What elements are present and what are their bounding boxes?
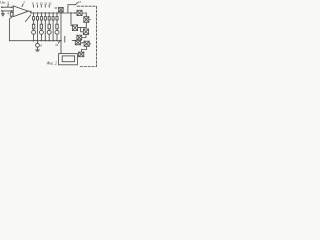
op-amp U1	[13, 6, 28, 17]
resistor b1	[32, 24, 34, 29]
resistor R1	[10, 12, 13, 16]
capacitor b1	[33, 17, 35, 20]
dashed enclosure top	[77, 5, 96, 7]
branch 2 x37.5	[36, 12, 38, 41]
gearbox B5	[77, 35, 82, 40]
branch 5 x49.2	[47, 12, 51, 41]
stub B7 right	[89, 43, 91, 45]
node dot return bottom bus	[60, 40, 61, 41]
wire B1-B2	[82, 13, 86, 17]
wire bus up-right corner	[68, 5, 76, 13]
branch 6 x53.1	[52, 12, 54, 41]
gearbox B3	[72, 25, 77, 31]
svg-text:14: 14	[78, 0, 81, 4]
node dot b1 top	[33, 12, 34, 13]
svg-text:15: 15	[54, 6, 57, 10]
wire B2-B3	[78, 22, 87, 27]
wire R1 down to feedback	[9, 16, 11, 41]
node terminal dot input 2	[1, 10, 3, 12]
branch 3 x41.4	[39, 12, 43, 41]
leaders for branch labels	[33, 5, 49, 7]
component X-box on bus	[59, 7, 64, 11]
svg-text:11: 11	[44, 2, 47, 6]
svg-text:Фиг. 2: Фиг. 2	[47, 61, 57, 65]
branch 4 x45.3	[44, 12, 46, 41]
gearbox B8	[79, 52, 84, 57]
wire input line 2	[1, 10, 13, 12]
wire bottom bus with feedback return	[9, 40, 61, 42]
node dot b1 bottom	[33, 40, 34, 41]
svg-text:8: 8	[40, 44, 42, 48]
wire op-amp output	[28, 11, 31, 13]
ground	[1, 12, 4, 16]
wire input line 1	[1, 6, 13, 8]
node output junction	[30, 11, 32, 13]
node dot return top	[60, 12, 61, 13]
svg-text:Uвх: Uвх	[0, 1, 6, 5]
dashed enclosure right	[96, 6, 98, 66]
lamp below bus	[37, 41, 39, 44]
branch 7 x57.0	[55, 12, 59, 41]
wire bus to gear chain	[68, 12, 77, 14]
gearbox B4	[83, 29, 88, 34]
stub B2 right	[89, 19, 91, 21]
leader tick x64.8	[64, 36, 66, 42]
wire from bus down to B3	[70, 13, 72, 25]
gearbox B2	[84, 17, 89, 23]
stub B6 left	[72, 40, 75, 42]
node dot before chain	[74, 12, 75, 13]
arrowhead into B3	[71, 24, 73, 26]
recorder box outer	[59, 54, 78, 65]
recorder box inner	[62, 56, 74, 62]
svg-text:4: 4	[7, 12, 9, 16]
gearbox B6	[75, 40, 80, 45]
node junction dot input 2	[11, 10, 12, 11]
leader for label 13	[58, 40, 60, 43]
ground below lamp	[36, 50, 40, 51]
wire top bus	[31, 12, 68, 14]
wire b1	[33, 13, 35, 41]
gearbox B1	[77, 10, 82, 15]
node dot x71	[70, 12, 71, 13]
node junction dot on input 1	[11, 7, 12, 8]
branch 1 x33.6	[32, 12, 36, 41]
leader for label 7	[22, 4, 23, 7]
wire B6-B7	[81, 42, 85, 44]
wire R1 to input 2	[11, 11, 13, 12]
gearbox B7	[84, 41, 89, 46]
lamp b1	[32, 30, 36, 34]
leader for 14	[75, 3, 77, 5]
wire B7 down to B8	[82, 46, 87, 52]
wire B4-B5	[82, 34, 86, 37]
wire B3-B4	[81, 28, 84, 32]
dashed enclosure bottom	[80, 66, 96, 68]
wire vertical return x61	[60, 13, 62, 54]
leader for label 2	[7, 4, 10, 6]
leader diagonal from output node	[25, 15, 30, 22]
node terminal dot input 1	[1, 6, 3, 8]
